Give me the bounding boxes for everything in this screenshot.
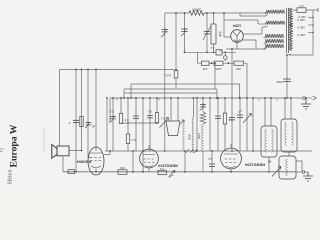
winding W1 bbox=[266, 10, 285, 14]
arrow into can bbox=[272, 167, 281, 177]
tuning cap plates bbox=[166, 121, 180, 136]
wire spk lead1 bbox=[69, 150, 82, 152]
wire drop x224 bbox=[223, 13, 225, 20]
resistor R-sp bbox=[68, 170, 75, 174]
svg-text:2x8: 2x8 bbox=[218, 31, 222, 36]
wire drop x136 bbox=[135, 98, 137, 151]
coil L3 bbox=[202, 124, 204, 152]
tube U-rect 1054 bbox=[231, 30, 244, 43]
wire top-left bus bbox=[60, 69, 175, 71]
tube REN904 bbox=[88, 147, 104, 175]
wire drop x76 bbox=[75, 70, 77, 172]
resistor R3 bbox=[155, 113, 158, 124]
coil L1 bbox=[183, 121, 185, 151]
svg-text:1000: 1000 bbox=[215, 67, 222, 71]
capacitor C6 bbox=[237, 115, 243, 117]
wire anode1 bbox=[243, 27, 262, 34]
wire bus 151 bbox=[105, 150, 312, 152]
svg-text:1054: 1054 bbox=[232, 24, 241, 28]
svg-text:30000: 30000 bbox=[192, 8, 201, 12]
wire drop x215 bbox=[214, 63, 216, 89]
winding W2 bbox=[266, 21, 285, 25]
IF can A bbox=[261, 126, 277, 157]
wire drop x166 bbox=[164, 13, 166, 98]
wiper arrow a bbox=[169, 171, 176, 178]
wire canB leads bbox=[285, 98, 291, 119]
svg-text:Europa W: Europa W bbox=[9, 124, 20, 167]
tube RENS1204 b bbox=[221, 148, 242, 169]
capacitor C5 bbox=[229, 118, 235, 120]
wire drop x240 bbox=[239, 98, 241, 151]
svg-text:1300: 1300 bbox=[197, 133, 201, 140]
svg-text:0,1: 0,1 bbox=[148, 110, 152, 114]
trimmer arrow1 bbox=[160, 118, 169, 128]
resistor R-filter bbox=[189, 11, 204, 16]
resistor R-spk bbox=[80, 117, 83, 127]
fuse F1 bbox=[293, 8, 318, 12]
wire loop B bbox=[124, 89, 217, 98]
wire drop x157 bbox=[156, 98, 158, 113]
paper crease bbox=[43, 127, 45, 151]
capacitor C-t bbox=[209, 164, 215, 166]
resistor R4 bbox=[223, 113, 226, 124]
svg-text:0,1: 0,1 bbox=[160, 117, 164, 121]
capacitor C-osc bbox=[200, 105, 206, 107]
wire x185 drop bbox=[184, 151, 186, 172]
svg-text:RENS1204: RENS1204 bbox=[244, 163, 265, 168]
svg-text:150 V: 150 V bbox=[297, 25, 305, 29]
wire drop x225 bbox=[224, 98, 226, 151]
wire drop x133 bbox=[132, 151, 134, 172]
tap 220V bbox=[290, 31, 314, 34]
wire HT bus top bbox=[165, 12, 265, 14]
capacitor C-c bbox=[204, 32, 211, 34]
svg-text:µF: µF bbox=[208, 157, 212, 161]
svg-text:3000: 3000 bbox=[188, 134, 192, 141]
connector out bbox=[302, 171, 305, 174]
capacitor C-g bbox=[86, 123, 92, 125]
wire drop x253 bbox=[252, 98, 254, 151]
wire bus 172 bbox=[63, 171, 296, 173]
lamp La bbox=[224, 52, 226, 61]
capacitor C-spk bbox=[73, 120, 79, 122]
capacitor C1 bbox=[110, 117, 116, 119]
wire drop x128 bbox=[127, 98, 129, 151]
wire drop x207 bbox=[206, 13, 208, 52]
ground mains bbox=[301, 98, 311, 109]
tube RENS1204 a bbox=[140, 149, 159, 168]
transformer core bbox=[287, 8, 289, 53]
svg-text:0,2: 0,2 bbox=[131, 138, 135, 142]
wire drop x193 bbox=[193, 98, 195, 117]
wire drop x247 bbox=[246, 63, 248, 151]
wire can out bbox=[296, 161, 302, 172]
wire drop x107 bbox=[106, 98, 108, 151]
resistor R1 bbox=[119, 114, 122, 124]
coil L2 bbox=[192, 117, 194, 153]
wire rect-top bbox=[224, 20, 258, 24]
wire rect-bottom bbox=[226, 43, 266, 50]
resistor Rd3 bbox=[234, 61, 244, 65]
wire drop x113 bbox=[112, 98, 114, 151]
winding primary bbox=[289, 8, 292, 50]
wire drop x176 bbox=[175, 13, 177, 89]
wire rect-left bbox=[224, 20, 231, 37]
wire divider bbox=[197, 62, 247, 64]
wire drop x232b bbox=[231, 98, 233, 151]
output can bbox=[279, 156, 296, 179]
wire spk lead2 bbox=[62, 156, 64, 172]
svg-text:240: 240 bbox=[202, 67, 207, 71]
svg-text:5000: 5000 bbox=[276, 80, 283, 84]
resistor R2 bbox=[126, 134, 129, 144]
capacitor C2 bbox=[133, 116, 139, 118]
wire drop x197 bbox=[196, 52, 198, 63]
svg-text:µF: µF bbox=[92, 125, 96, 129]
wire drop x110 bbox=[109, 98, 111, 123]
svg-text:0,1: 0,1 bbox=[210, 46, 214, 50]
wire drop x178 bbox=[177, 98, 179, 121]
svg-text:0,1: 0,1 bbox=[110, 110, 114, 114]
capacitor C-b bbox=[181, 29, 188, 31]
winding W3 bbox=[265, 34, 284, 38]
wire drop x61 bbox=[59, 70, 61, 147]
wire drop x88 bbox=[88, 70, 91, 158]
resistor Rd2 bbox=[214, 61, 223, 65]
wire drop x184 bbox=[184, 13, 186, 52]
svg-text:µF: µF bbox=[238, 110, 242, 114]
wire drop x143 bbox=[142, 98, 144, 172]
svg-text:220 V: 220 V bbox=[297, 33, 305, 37]
svg-text:2x0,1: 2x0,1 bbox=[164, 74, 172, 78]
svg-text:REN904: REN904 bbox=[76, 159, 92, 164]
tap 150V bbox=[290, 24, 314, 27]
capacitor C4 bbox=[215, 116, 221, 118]
resistor R-k2 bbox=[158, 170, 167, 174]
wire mid y52 bbox=[185, 51, 237, 53]
lamp-fuse F2 bbox=[216, 50, 222, 55]
wire link y123 bbox=[121, 122, 157, 124]
svg-text:6V: 6V bbox=[219, 49, 223, 53]
wire drop x197 bbox=[196, 98, 198, 151]
wire primary bottom bbox=[287, 55, 313, 98]
capacitor C-a bbox=[162, 30, 169, 32]
wire main bus bbox=[110, 97, 302, 99]
trimmer arrow2 bbox=[243, 114, 252, 124]
wire drop x81 bbox=[81, 70, 83, 151]
tap 125V bbox=[290, 16, 314, 19]
wire anode2 bbox=[242, 40, 256, 49]
wire x212 drop bbox=[211, 151, 213, 172]
wire drop x203 bbox=[202, 98, 204, 112]
wire plate lead bbox=[104, 151, 110, 155]
wire canA leads bbox=[265, 98, 271, 126]
svg-text:0,3: 0,3 bbox=[160, 167, 164, 171]
wire drop x210 bbox=[209, 98, 211, 151]
wire drop x171 bbox=[170, 98, 172, 121]
resistor R-b bbox=[174, 71, 178, 79]
speaker bbox=[52, 145, 57, 159]
svg-text:0,5: 0,5 bbox=[299, 4, 303, 8]
resistor Rd1 bbox=[202, 61, 210, 65]
svg-text:250: 250 bbox=[236, 67, 241, 71]
capacitor C3 bbox=[147, 116, 153, 118]
wire drop x232 bbox=[231, 49, 233, 98]
capacitor C-line bbox=[283, 79, 291, 81]
wire tap rail bbox=[312, 10, 314, 55]
svg-text:125 V: 125 V bbox=[297, 18, 305, 22]
wire drop x164 bbox=[164, 98, 166, 151]
wire canB bottom bbox=[288, 152, 290, 156]
electrolytic 2x8uF bbox=[213, 13, 215, 52]
wire drop x121 bbox=[120, 98, 122, 114]
wire drop x96 bbox=[95, 70, 97, 148]
crossover marks bbox=[186, 149, 197, 153]
wire drop x150 bbox=[149, 98, 151, 151]
resistor R-k bbox=[118, 170, 127, 175]
wire heater pair bbox=[240, 13, 266, 16]
connector mains bbox=[303, 97, 306, 100]
IF can B bbox=[281, 119, 297, 152]
svg-text:6z: 6z bbox=[267, 160, 271, 164]
wire drop x218 bbox=[217, 98, 219, 151]
page edge mark bbox=[0, 149, 4, 152]
wire loop A bbox=[131, 84, 240, 98]
coil L3 zig bbox=[200, 112, 206, 124]
wire canA bottom bbox=[268, 157, 270, 172]
svg-text:300: 300 bbox=[120, 166, 125, 170]
wire loop C bbox=[124, 89, 217, 98]
svg-text:Heico: Heico bbox=[8, 170, 14, 184]
ground out bbox=[303, 172, 313, 181]
